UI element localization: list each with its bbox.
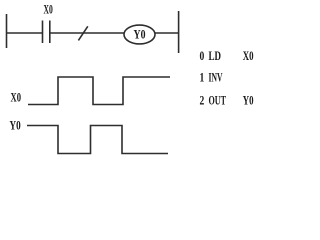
svg-text:LD: LD: [209, 48, 222, 63]
wire: left rail to contact X0: [6, 32, 42, 34]
svg-text:2: 2: [200, 93, 205, 108]
svg-text:1: 1: [200, 70, 205, 85]
wire: coil Y0 to right rail: [155, 32, 179, 34]
right power rail: [178, 11, 180, 53]
svg-text:INV: INV: [209, 70, 223, 85]
INV slash: [78, 26, 87, 40]
coil Y0 outline: [124, 25, 155, 44]
svg-text:X0: X0: [243, 48, 254, 63]
svg-text:OUT: OUT: [209, 93, 227, 108]
svg-text:Y0: Y0: [134, 26, 146, 41]
contact X0: [43, 21, 50, 44]
svg-text:X0: X0: [44, 3, 53, 17]
waveform X0 trace: [28, 77, 170, 105]
waveform Y0 trace: [27, 126, 168, 154]
left power rail: [6, 14, 8, 48]
svg-text:0: 0: [200, 48, 205, 63]
wire: contact X0 to coil, crossed by INV slash: [51, 32, 125, 34]
svg-text:X0: X0: [11, 89, 22, 104]
svg-text:Y0: Y0: [10, 118, 21, 133]
svg-text:Y0: Y0: [243, 93, 254, 108]
